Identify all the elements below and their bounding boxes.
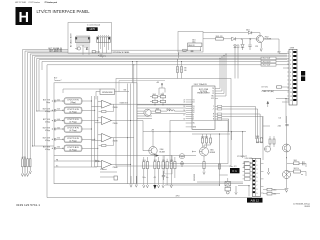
resistor 3202 vertical bbox=[24, 159, 26, 167]
resistor 3413 bbox=[157, 162, 159, 169]
resistor 3402 bbox=[160, 96, 165, 98]
right column circuits bbox=[256, 116, 287, 188]
svg-text:(0.7Vpp): (0.7Vpp) bbox=[70, 149, 77, 151]
IC area inner box bbox=[170, 121, 228, 164]
bus labels bbox=[48, 47, 62, 53]
svg-text:AV CABLE ASSY: AV CABLE ASSY bbox=[69, 32, 72, 47]
svg-text:to control board: to control board bbox=[87, 24, 100, 27]
svg-text:104: 104 bbox=[278, 118, 281, 120]
svg-text:(1Vpp): (1Vpp) bbox=[70, 102, 76, 104]
svg-text:0.7Vpp: 0.7Vpp bbox=[45, 121, 50, 123]
small box 1402 bbox=[114, 176, 118, 180]
svg-text:3445: 3445 bbox=[294, 160, 298, 162]
vertical feed resistors 3310/3311 bbox=[178, 60, 182, 79]
transistor 7402 bbox=[144, 109, 151, 116]
svg-text:100u: 100u bbox=[192, 42, 196, 44]
resistor 3602 on line bbox=[183, 49, 187, 51]
svg-text:17: 17 bbox=[183, 114, 185, 116]
svg-text:0.7Vpp: 0.7Vpp bbox=[45, 111, 50, 113]
vertical rail x219.5 bbox=[219, 134, 221, 186]
wires from connector J2 down bbox=[98, 43, 108, 54]
logo H bbox=[16, 7, 33, 25]
svg-text:Tessera-7: Tessera-7 bbox=[54, 79, 61, 82]
svg-text:REG 8V: REG 8V bbox=[188, 45, 195, 47]
svg-text:(0.7Vpp): (0.7Vpp) bbox=[70, 111, 77, 113]
dark ground bbox=[153, 185, 156, 189]
svg-text:LTV CTL: LTV CTL bbox=[262, 87, 269, 89]
service mark blob bbox=[301, 71, 305, 76]
ground arrows bottom center bbox=[130, 176, 173, 188]
svg-text:LTV/CTI Interface: LTV/CTI Interface bbox=[29, 1, 41, 4]
svg-text:LTV/CTI INTERFACE PANEL: LTV/CTI INTERFACE PANEL bbox=[37, 9, 91, 14]
resistor pair bottom right bbox=[267, 188, 272, 191]
svg-text:SRV/NORM: SRV/NORM bbox=[102, 92, 113, 94]
F1 blob bbox=[230, 168, 240, 173]
resistor 3405 bbox=[156, 110, 161, 112]
connector J2 bbox=[97, 37, 111, 43]
svg-text:16: 16 bbox=[183, 118, 185, 120]
net label box LTV-Y bbox=[261, 57, 276, 60]
svg-text:3412: 3412 bbox=[154, 160, 157, 162]
svg-text:BC848: BC848 bbox=[210, 152, 215, 154]
svg-text:12: 12 bbox=[290, 96, 292, 98]
wire bus3 bbox=[28, 53, 68, 159]
feedback resistor U2a bbox=[99, 138, 114, 146]
svg-text:LTV U OUT: LTV U OUT bbox=[262, 61, 271, 63]
svg-text:19: 19 bbox=[183, 106, 185, 108]
svg-text:20: 20 bbox=[183, 102, 185, 104]
resistor 3443 bbox=[273, 139, 275, 144]
svg-text:330: 330 bbox=[184, 68, 187, 70]
capacitor 2105 bbox=[100, 55, 103, 56]
svg-text:B: B bbox=[193, 118, 194, 120]
connector J1 bbox=[75, 37, 90, 43]
svg-text:Y1: Y1 bbox=[193, 100, 195, 102]
supply arrow mid bbox=[267, 101, 269, 107]
corner wires right of IC bbox=[222, 99, 289, 139]
capacitor 2601 bbox=[248, 39, 251, 50]
resistor 3411 bbox=[146, 162, 148, 169]
svg-text:C2: C2 bbox=[212, 93, 214, 95]
svg-text:B: B bbox=[213, 119, 214, 121]
resistor 3445 bbox=[294, 162, 300, 165]
resistor horizontal top right bbox=[294, 170, 301, 173]
diode 6604 bbox=[248, 31, 252, 34]
svg-text:A/B 12: A/B 12 bbox=[250, 199, 259, 203]
svg-text:BC848: BC848 bbox=[160, 151, 165, 153]
resistor 3105 bbox=[92, 51, 95, 53]
svg-text:13: 13 bbox=[290, 100, 292, 102]
svg-text:0.7Vpp: 0.7Vpp bbox=[45, 130, 50, 132]
IC right pins bbox=[215, 89, 226, 99]
svg-text:G: G bbox=[213, 116, 214, 118]
top connector box bbox=[68, 23, 112, 54]
svg-text:BCT B IN: BCT B IN bbox=[43, 147, 51, 149]
svg-text:1760 SDA: 1760 SDA bbox=[245, 157, 254, 160]
capacitor 2416 bbox=[162, 171, 165, 180]
inner area corner bbox=[63, 89, 100, 93]
collector resistors rail bbox=[192, 133, 230, 135]
opamp area box bbox=[54, 83, 137, 184]
module box around 3414/3415 bbox=[165, 155, 172, 174]
ground arrows left bbox=[21, 167, 31, 177]
connector 1470 label blob bbox=[87, 27, 98, 31]
wire through box y50 bbox=[112, 49, 188, 51]
wire bus4 bbox=[30, 54, 287, 159]
svg-text:0.7Vpp: 0.7Vpp bbox=[45, 140, 50, 142]
wire bus8 bbox=[39, 60, 287, 111]
svg-text:-Y: -Y bbox=[213, 109, 214, 111]
svg-text:L-Select: L-Select bbox=[100, 168, 107, 171]
op-amp U1b bbox=[102, 116, 112, 124]
lines with series parts y110-115 bbox=[137, 111, 186, 118]
svg-text:18: 18 bbox=[183, 110, 185, 112]
ground right bbox=[267, 168, 269, 175]
resistor 3422 bbox=[210, 138, 212, 143]
svg-text:2410: 2410 bbox=[143, 160, 146, 162]
resistor 3421 bbox=[206, 138, 208, 143]
svg-text:U1: U1 bbox=[193, 102, 195, 104]
junction dot bbox=[82, 45, 83, 46]
connector stub wires bbox=[283, 58, 289, 68]
svg-text:3450: 3450 bbox=[273, 190, 277, 192]
crystal 1502 bbox=[225, 182, 231, 187]
resistor 3201 vertical bbox=[22, 159, 24, 167]
ground x286 bbox=[285, 188, 289, 192]
svg-text:BCT Y IN: BCT Y IN bbox=[43, 99, 51, 101]
svg-text:(0.7Vpp): (0.7Vpp) bbox=[70, 130, 77, 132]
svg-text:PICTURE: PICTURE bbox=[200, 91, 207, 93]
svg-text:BCT V IN: BCT V IN bbox=[43, 119, 51, 121]
transistor 7406 bbox=[265, 146, 271, 152]
resistor 3414 bbox=[162, 162, 164, 169]
svg-text:3105: 3105 bbox=[96, 51, 100, 53]
line with resistor to right bbox=[287, 163, 306, 167]
input row 4 : BCT R IN bbox=[43, 126, 92, 133]
svg-text:BOT AUDIO IN: BOT AUDIO IN bbox=[49, 50, 62, 53]
IC area outer box bbox=[116, 79, 231, 167]
op-amp U2b bbox=[102, 160, 112, 168]
resistor 3424 bbox=[219, 164, 221, 169]
resistor 3412 bbox=[154, 162, 156, 169]
vertical feed bbox=[219, 184, 221, 186]
IC area inner corner bbox=[119, 81, 165, 93]
svg-text:3451: 3451 bbox=[273, 194, 277, 196]
left bus nested corner wires bbox=[22, 50, 287, 198]
bottom right connector strip 1761 bbox=[252, 158, 260, 196]
input row 2 : BCT U IN bbox=[43, 107, 95, 114]
wire upper rail y32.7 bbox=[203, 33, 260, 36]
capacitor 2415 bbox=[180, 162, 184, 167]
svg-text:7401 TDA4670: 7401 TDA4670 bbox=[194, 83, 208, 86]
svg-text:IFC7-1708: IFC7-1708 bbox=[199, 89, 208, 91]
svg-text:3601 470: 3601 470 bbox=[216, 36, 223, 38]
svg-text:330: 330 bbox=[184, 70, 187, 72]
svg-text:5601: 5601 bbox=[192, 40, 196, 42]
resistor 3442 bbox=[269, 139, 271, 144]
arrow on wire y155.5 bbox=[156, 154, 160, 156]
svg-text:4822 727 26443: 4822 727 26443 bbox=[15, 2, 27, 4]
svg-text:R: R bbox=[213, 114, 214, 116]
wire transistor output bbox=[264, 39, 289, 54]
resistor 3403 bbox=[152, 100, 157, 102]
svg-text:LTV V OUT: LTV V OUT bbox=[262, 65, 271, 67]
resistor 3203 vertical bbox=[27, 159, 29, 167]
svg-text:1470: 1470 bbox=[89, 27, 95, 31]
resistor 3440 bbox=[257, 138, 259, 143]
svg-text:U2: U2 bbox=[193, 110, 195, 112]
svg-text:3404: 3404 bbox=[161, 94, 165, 96]
junction + wires under connector bbox=[248, 185, 249, 186]
center resistor ladder bbox=[159, 85, 165, 93]
svg-text:Y: Y bbox=[213, 106, 214, 108]
svg-text:0.7Vpp: 0.7Vpp bbox=[45, 149, 50, 151]
svg-text:1702: 1702 bbox=[277, 52, 281, 54]
transistor circle 7501 bbox=[283, 144, 291, 152]
wire bus7 bbox=[37, 58, 287, 111]
resistor 3420 bbox=[202, 138, 204, 143]
small parts right mid bbox=[244, 162, 249, 164]
svg-text:3416: 3416 bbox=[170, 160, 173, 162]
pin numbers column bbox=[290, 52, 292, 102]
resistor 3410 bbox=[143, 162, 145, 169]
svg-text:BCT G IN: BCT G IN bbox=[43, 138, 51, 140]
svg-text:2414: 2414 bbox=[162, 160, 165, 162]
header microtext bbox=[15, 1, 57, 4]
svg-text:BCT R IN: BCT R IN bbox=[43, 127, 51, 129]
input row 3 : BCT V IN bbox=[43, 117, 98, 124]
resistor 3423 emitter bbox=[203, 162, 205, 169]
resistor on line bbox=[277, 86, 282, 88]
stub to opamp box y111 bbox=[37, 110, 54, 112]
svg-text:SEL: SEL bbox=[211, 96, 214, 98]
svg-text:C1: C1 bbox=[212, 91, 214, 93]
svg-text:3420 3421: 3420 3421 bbox=[201, 136, 208, 138]
supply arrow 12V bbox=[260, 43, 262, 52]
svg-text:(0.7Vpp): (0.7Vpp) bbox=[70, 140, 77, 142]
wires into connector mid bbox=[262, 87, 289, 102]
wires from connector J1 down bbox=[77, 43, 89, 54]
svg-text:Y2: Y2 bbox=[193, 108, 195, 110]
svg-text:LTV Y OUT: LTV Y OUT bbox=[262, 58, 271, 60]
stub to opamp box y146 bbox=[32, 145, 54, 147]
svg-text:VCC: VCC bbox=[211, 98, 214, 100]
svg-text:21: 21 bbox=[183, 100, 185, 102]
svg-text:CVBS OUT: CVBS OUT bbox=[120, 102, 128, 104]
resistor 3441 bbox=[261, 138, 263, 143]
zener 6602 bbox=[241, 39, 244, 50]
srv/norm switch box bbox=[100, 89, 115, 95]
bottom area: frame inner line bbox=[54, 183, 243, 185]
svg-text:H: H bbox=[18, 10, 28, 26]
svg-text:11: 11 bbox=[290, 92, 292, 94]
op-amp U1a bbox=[102, 100, 112, 108]
wire bus9 long bbox=[42, 62, 287, 71]
diode 6601 bbox=[232, 37, 236, 40]
input row 6 : BCT B IN bbox=[43, 145, 98, 152]
wire bus1 bbox=[22, 50, 68, 159]
ground bbox=[235, 186, 237, 195]
resistor 3204 vertical bbox=[29, 159, 31, 167]
transistor Q1 7404 bbox=[149, 147, 157, 155]
diode sym on line bbox=[96, 160, 100, 162]
capacitor 2603 bbox=[237, 44, 240, 50]
transistor 7105 bbox=[77, 47, 80, 50]
input row 1 : BCT Y IN bbox=[43, 98, 92, 105]
coil 5401 bbox=[167, 110, 175, 111]
input row 5 : BCT G IN bbox=[43, 136, 95, 143]
capacitor 2440 bbox=[285, 124, 288, 126]
svg-text:F 1: F 1 bbox=[233, 169, 238, 173]
pin label cells 1760 bbox=[245, 162, 250, 181]
svg-text:YS: YS bbox=[212, 88, 214, 90]
svg-text:2440: 2440 bbox=[278, 125, 282, 127]
top feed wire into opamp box bbox=[132, 62, 134, 83]
resistor 3404 bbox=[160, 100, 165, 102]
IC left pins bbox=[186, 100, 192, 127]
svg-text:47u: 47u bbox=[103, 56, 106, 58]
svg-text:uPhil: uPhil bbox=[176, 195, 180, 197]
feedback resistor U1a bbox=[99, 104, 114, 111]
svg-text:3139 123 5741.1: 3139 123 5741.1 bbox=[16, 203, 40, 207]
svg-text:100n: 100n bbox=[143, 177, 146, 179]
svg-text:V1: V1 bbox=[193, 106, 195, 108]
svg-text:3440: 3440 bbox=[256, 136, 260, 138]
resistor 3416 bbox=[170, 162, 172, 169]
zener 6603 bbox=[234, 44, 237, 50]
coil 5402 bbox=[180, 156, 185, 157]
op-amp U2a bbox=[102, 133, 112, 142]
svg-text:3139 128: 3139 128 bbox=[194, 174, 196, 181]
svg-text:10: 10 bbox=[290, 88, 292, 90]
svg-text:BCT U IN: BCT U IN bbox=[43, 109, 51, 111]
wire bus6 bbox=[35, 57, 287, 146]
net label box LTV-V bbox=[261, 63, 276, 66]
top right regulator box bbox=[178, 32, 203, 53]
resistor 3417 bbox=[174, 162, 176, 169]
+8V rail bbox=[143, 131, 246, 133]
svg-text:6604: 6604 bbox=[246, 29, 250, 31]
capacitor 2602 bbox=[191, 50, 194, 52]
inverting input rails bbox=[92, 96, 98, 167]
diode 6105 bbox=[86, 48, 88, 50]
junction node bbox=[249, 38, 250, 39]
wire from box to transistor bbox=[203, 38, 256, 40]
svg-text:1Vpp: 1Vpp bbox=[46, 102, 50, 104]
wire bus5 bbox=[32, 55, 287, 146]
svg-text:(0.7Vpp): (0.7Vpp) bbox=[70, 122, 77, 124]
output rails bbox=[128, 62, 137, 184]
AB blob bbox=[247, 198, 263, 203]
transistor 7602 bbox=[256, 35, 263, 42]
svg-text:V2: V2 bbox=[193, 112, 195, 114]
svg-text:3452 1k: 3452 1k bbox=[294, 168, 300, 170]
resistor 3415 bbox=[166, 162, 168, 169]
svg-text:3403: 3403 bbox=[153, 94, 157, 96]
pin label boxes right bbox=[218, 105, 222, 120]
wire enclosure left/bottom bbox=[47, 65, 287, 198]
svg-text:Facc X/Y: Facc X/Y bbox=[230, 166, 238, 168]
long lines inside opamp box bottom bbox=[54, 156, 196, 178]
net label box LTV-U bbox=[261, 60, 276, 63]
svg-text:260599: 260599 bbox=[304, 206, 310, 208]
resistor 3401 bbox=[152, 96, 157, 98]
wire bus2 bbox=[25, 51, 68, 159]
svg-text:CTI Interface panel: CTI Interface panel bbox=[45, 1, 58, 4]
risers from IC right pins to bus bbox=[220, 50, 238, 96]
resistor 3601 bbox=[216, 38, 224, 41]
svg-text:CVBS OUT (AV): CVBS OUT (AV) bbox=[262, 90, 275, 93]
transistor Q2 7405 bbox=[200, 147, 209, 156]
crystal circle 7502 bbox=[283, 171, 291, 179]
svg-text:LTV IN: LTV IN bbox=[166, 109, 171, 111]
svg-text:3405: 3405 bbox=[156, 108, 160, 110]
svg-text:FB: FB bbox=[56, 160, 58, 162]
